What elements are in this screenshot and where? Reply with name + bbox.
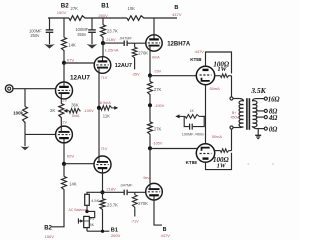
node V1 plate 67V	[62, 61, 66, 65]
svg-text:27K: 27K	[154, 127, 162, 132]
svg-text:270K: 270K	[138, 51, 148, 56]
wire node to V5 grid	[64, 163, 94, 165]
node pot top	[85, 210, 88, 213]
node -100V	[148, 103, 152, 107]
node -105V	[148, 146, 152, 150]
pentode U1 KT88 upper	[196, 66, 214, 84]
svg-text:12BH7A: 12BH7A	[167, 41, 191, 47]
svg-text:14K: 14K	[69, 182, 77, 187]
ground (C1)	[44, 44, 55, 49]
wire to KT88 upper grid	[150, 75, 197, 77]
wire 100k to ground tee	[24, 124, 26, 135]
svg-text:B+: B+	[232, 111, 236, 115]
svg-text:260V: 260V	[111, 233, 121, 238]
ground (input)	[20, 146, 29, 150]
svg-text:AC Balance: AC Balance	[69, 208, 88, 212]
wire R14K to plate node	[63, 52, 65, 63]
wire plate node to C4	[103, 191, 124, 193]
svg-text:447V: 447V	[172, 12, 182, 17]
svg-text:.047MF: .047MF	[119, 36, 133, 40]
wire V6 plate to B	[154, 200, 162, 225]
terminal OPT primary top	[230, 97, 233, 100]
resistor 14K (V2 plate load)	[62, 177, 67, 191]
resistor 100R 1W (lower)	[220, 149, 229, 153]
svg-text:2K: 2K	[50, 108, 55, 113]
svg-text:270K: 270K	[138, 201, 148, 206]
svg-text:B2: B2	[61, 3, 69, 10]
wire to KT88 lower grid	[150, 148, 198, 150]
wire primary top	[233, 98, 240, 100]
svg-text:27K: 27K	[71, 6, 79, 11]
wire U1 cathode down	[205, 85, 207, 144]
svg-text:10K: 10K	[128, 6, 136, 11]
svg-text:B1: B1	[101, 3, 109, 10]
capacitor C4 .047MF	[123, 190, 125, 196]
svg-text:1W: 1W	[217, 66, 227, 73]
svg-text:36K: 36K	[71, 103, 79, 108]
wire node to V1 plate	[63, 63, 65, 83]
svg-text:12AU7: 12AU7	[70, 75, 90, 82]
wire B1 to 23.7K	[102, 18, 104, 25]
svg-text:.047MF: .047MF	[120, 183, 134, 187]
svg-text:B: B	[163, 227, 167, 233]
resistor 270K (V4 grid)	[134, 43, 136, 47]
svg-text:2V: 2V	[62, 121, 67, 125]
svg-text:218V: 218V	[106, 37, 116, 42]
svg-text:100MF /400v: 100MF /400v	[182, 132, 204, 136]
wire U2 plate	[215, 150, 221, 152]
svg-text:27K: 27K	[154, 87, 162, 92]
svg-text:447V: 447V	[195, 49, 204, 54]
resistor 27K (B1-B2 dropper)	[69, 16, 86, 21]
capacitor Ck 100MF/400v	[184, 116, 189, 126]
capacitor C2 100MF 350v	[91, 18, 93, 29]
wire 23.7K to B1 bottom	[102, 210, 104, 231]
triode V1 12AU7a	[56, 82, 73, 99]
svg-text:-29V: -29V	[153, 70, 161, 74]
svg-text:1.25mA: 1.25mA	[105, 48, 119, 53]
wire 4.5K to pot node	[86, 205, 88, 211]
svg-text:67V: 67V	[67, 58, 74, 63]
node V3 plate 218V	[101, 41, 105, 45]
svg-text:-105V: -105V	[152, 142, 163, 146]
svg-text:4.5K: 4.5K	[91, 198, 99, 203]
wire pot to V2 cathode	[60, 119, 62, 127]
svg-text:KT88: KT88	[190, 57, 202, 62]
wire node to 27K	[149, 76, 151, 82]
wire node to R 14K lower	[63, 164, 65, 177]
svg-text:14K: 14K	[68, 42, 76, 47]
wire plate node to V3 grid	[64, 62, 94, 64]
wire U2 screen loop	[206, 153, 232, 170]
svg-text:0Ω: 0Ω	[269, 126, 277, 133]
svg-text:100k: 100k	[13, 110, 23, 115]
svg-text:9mA: 9mA	[143, 176, 151, 180]
svg-text:23.7K: 23.7K	[107, 28, 118, 33]
svg-text:-35V: -35V	[132, 72, 140, 76]
wire V2 plate down	[63, 143, 65, 162]
wire tee down	[24, 135, 26, 147]
wire C4 to V6 grid	[128, 191, 146, 193]
node V4 cathode -29V	[148, 73, 152, 77]
wire V1 cathode to pot	[60, 99, 62, 104]
resistor 4.5K (box)	[85, 194, 90, 205]
svg-text:150V: 150V	[57, 10, 67, 15]
speck artifacts	[247, 163, 249, 165]
resistor 270K (V6 grid)	[134, 192, 136, 195]
wire U1 screen loop	[206, 52, 232, 74]
svg-text:6.9mA: 6.9mA	[100, 101, 111, 105]
wire V5 plate down	[102, 173, 104, 191]
pot wiper arm	[84, 220, 89, 222]
svg-text:B2: B2	[44, 226, 52, 232]
resistor 23.7K (V5 plate load)	[100, 199, 105, 211]
svg-text:-71V: -71V	[131, 220, 139, 224]
svg-text:9mA: 9mA	[152, 56, 160, 60]
terminal 0R	[264, 127, 267, 130]
transformer T1 primary winding	[239, 99, 243, 128]
svg-text:2V: 2V	[62, 99, 67, 103]
wire input to grid-leak	[24, 89, 26, 107]
svg-text:50mA: 50mA	[212, 134, 223, 139]
wire V4 cathode down	[149, 51, 151, 75]
svg-text:218V: 218V	[106, 186, 116, 191]
pentode U2 KT88 lower	[196, 144, 214, 162]
triode V2 12AU7b (flipped)	[56, 126, 73, 143]
wire pot to B1 bus	[86, 228, 88, 232]
wire junction to V5	[98, 108, 100, 156]
wire C3 to V4 grid	[128, 42, 146, 44]
svg-text:50mA: 50mA	[210, 86, 221, 91]
svg-text:5mA: 5mA	[72, 114, 80, 118]
wire U1 plate	[215, 75, 221, 77]
resistor 27K (tail upper)	[148, 82, 153, 96]
wire node to 4.5K branch	[87, 192, 103, 194]
capacitor C1 100MF 250v	[49, 18, 51, 29]
resistor 23.7K (V3 plate load)	[101, 25, 106, 38]
resistor 36K (bias feed)	[69, 109, 80, 114]
resistor 100k grid leak	[23, 107, 28, 124]
capacitor C3 .047MF	[123, 41, 125, 47]
triode V6 12BH7A (flipped)	[146, 183, 163, 200]
wire node to V6 cathode	[149, 149, 151, 184]
wire top B+ bus	[48, 17, 69, 19]
wire 23.7K to node	[102, 38, 104, 43]
terminal OPT primary bottom	[230, 126, 233, 129]
resistor Rk (adjustable)	[185, 115, 200, 119]
wire B1 bottom bus	[87, 230, 109, 232]
svg-text:447V: 447V	[161, 233, 171, 238]
terminal 16R	[264, 97, 267, 100]
input terminal J1	[5, 85, 13, 93]
pot wiper arrow	[66, 110, 69, 112]
svg-text:-100V: -100V	[83, 108, 94, 113]
terminal 4R	[264, 116, 267, 119]
resistor 10K (B-B1 dropper)	[127, 16, 145, 21]
svg-text:1K: 1K	[190, 109, 195, 113]
ground (C2)	[87, 44, 98, 49]
wire primary bottom	[233, 127, 240, 129]
wire B2 to R 14K	[63, 18, 65, 38]
wire 27K to mid node	[149, 96, 151, 105]
triode V3 12AU7 (2nd stage)	[94, 57, 111, 74]
svg-text:11K: 11K	[103, 114, 110, 119]
wire bus to V4 plate	[153, 18, 155, 40]
potentiometer P1 5K AC balance	[84, 216, 90, 227]
svg-text:150V: 150V	[45, 234, 55, 239]
svg-text:23.7K: 23.7K	[107, 202, 118, 207]
node V2 plate 60V	[62, 162, 66, 166]
wire 0R tap	[256, 128, 265, 130]
svg-text:4Ω: 4Ω	[268, 115, 277, 122]
svg-text:60V: 60V	[67, 154, 74, 159]
wire V3 cathode down	[98, 73, 100, 107]
svg-text:71V: 71V	[101, 76, 108, 80]
transformer T1 secondary winding	[253, 99, 257, 129]
terminal 8R	[264, 109, 267, 112]
wire 16R tap	[256, 98, 265, 100]
svg-text:450V: 450V	[231, 116, 240, 120]
wire node to V3 plate	[102, 43, 104, 57]
resistor 11K (bias)	[101, 106, 113, 111]
wire 27K to node	[149, 135, 151, 147]
wire 4R tap	[256, 116, 264, 118]
svg-text:P1: P1	[90, 217, 94, 221]
svg-text:71V: 71V	[101, 147, 108, 151]
resistor 100R 1W (upper)	[220, 74, 229, 78]
transformer core	[246, 98, 248, 130]
triode V4 12BH7A	[146, 35, 162, 51]
potentiometer 2K (cathode)	[59, 104, 64, 119]
wire 0R to ground	[257, 129, 259, 135]
wire input to V1 grid	[12, 88, 56, 90]
wire mid node to 27K lower	[149, 105, 151, 122]
svg-text:KT88: KT88	[186, 160, 198, 165]
svg-text:5K: 5K	[90, 223, 95, 227]
resistor 27K (tail lower)	[148, 122, 153, 135]
triode V5 12AU7 (flipped)	[94, 156, 111, 173]
svg-text:3.5K: 3.5K	[250, 86, 266, 95]
wire U2 plate to OPT	[231, 129, 233, 151]
svg-text:16Ω: 16Ω	[268, 96, 280, 103]
svg-text:350v: 350v	[77, 32, 87, 37]
cathode bias network: arrow	[179, 115, 185, 117]
wire U1 plate to OPT	[231, 76, 233, 97]
svg-text:260V: 260V	[98, 13, 108, 18]
node V5 plate 218V	[100, 190, 104, 194]
svg-text:12AU7: 12AU7	[115, 63, 132, 69]
svg-text:250v: 250v	[30, 33, 40, 38]
wire 14K to B2 bottom	[51, 191, 64, 227]
svg-text:B: B	[174, 5, 178, 11]
svg-text:1W: 1W	[217, 163, 227, 170]
wire 8R tap	[256, 110, 264, 112]
arrow 11K end	[112, 107, 114, 109]
wire plate node to C3	[103, 42, 124, 44]
svg-text:-100V: -100V	[154, 104, 165, 108]
ground (secondary)	[255, 134, 261, 136]
node cathode junction	[97, 106, 101, 110]
wire wiper loop	[87, 211, 95, 217]
wire node to 23.7K lower	[102, 192, 104, 198]
resistor 14K (V1 plate load)	[62, 38, 67, 52]
